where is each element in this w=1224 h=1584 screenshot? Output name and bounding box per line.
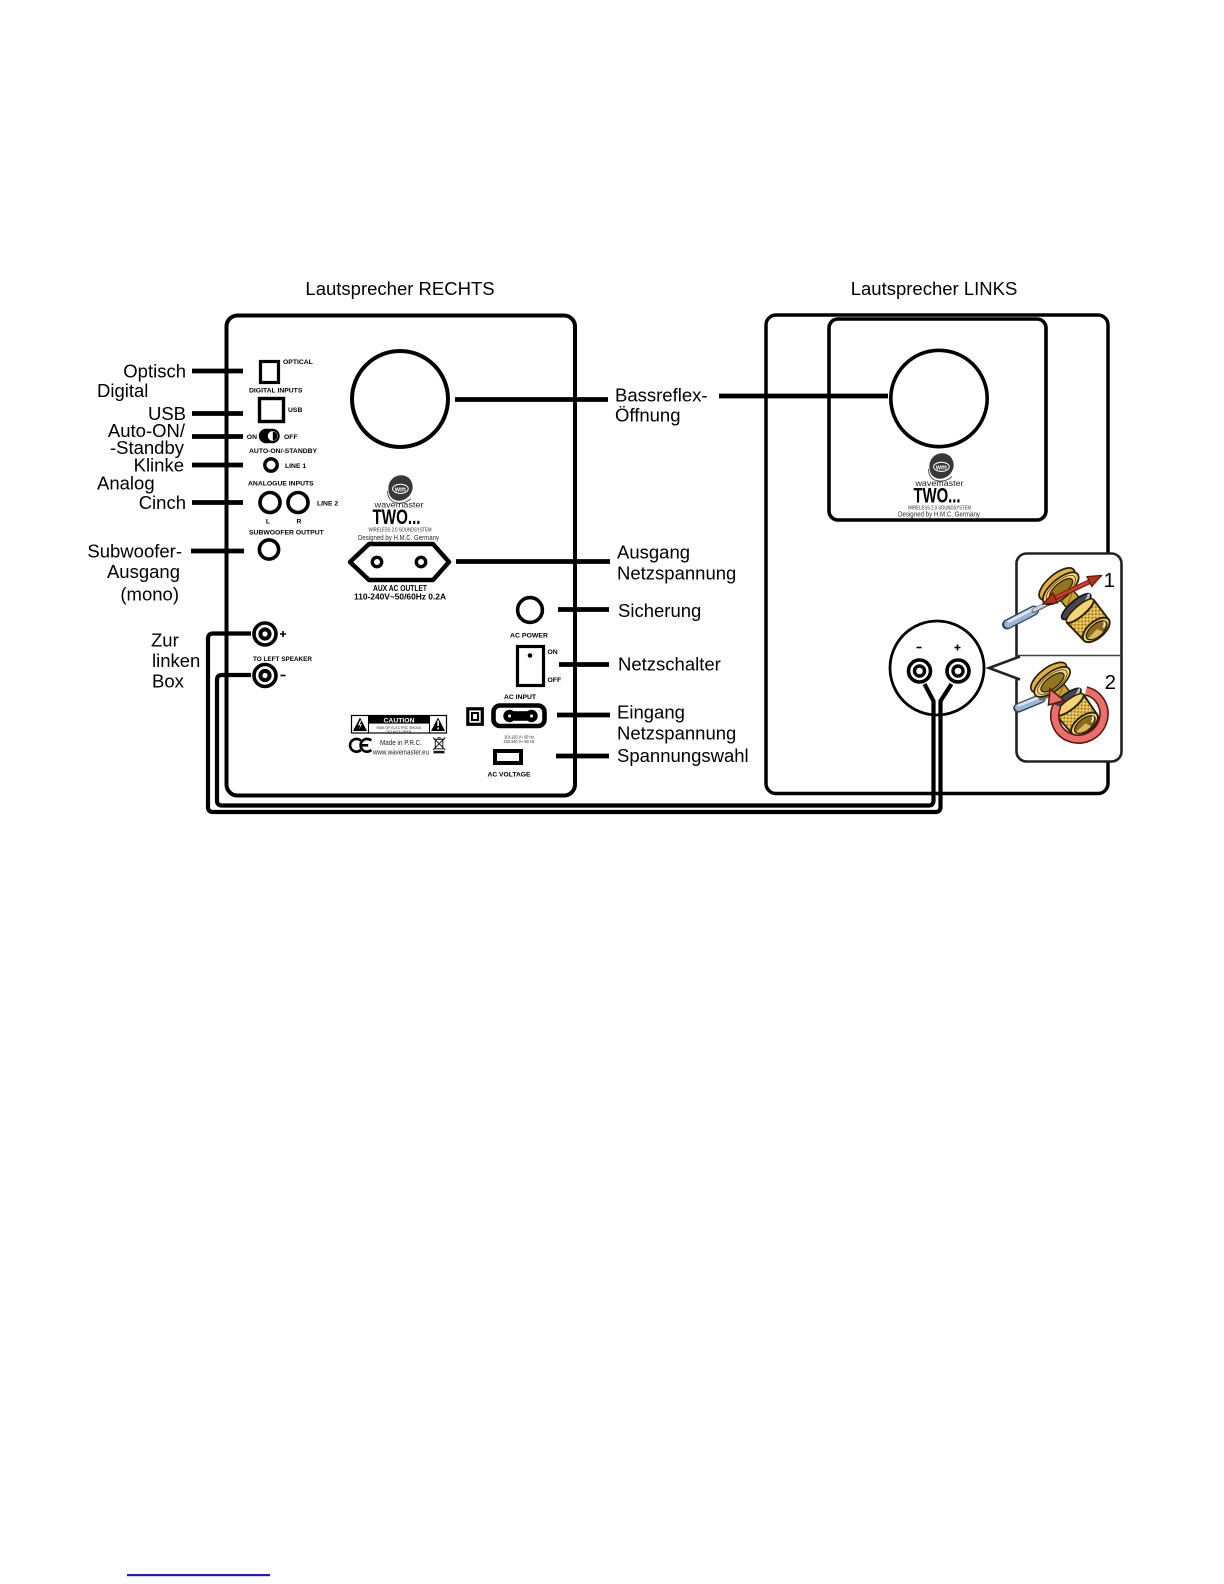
plug body 1 — [1034, 562, 1118, 650]
svg-text:Cinch: Cinch — [139, 492, 186, 513]
svg-text:ON: ON — [247, 434, 257, 441]
bassreflex opening right speaker — [352, 351, 448, 447]
svg-text:110-240V~50/60Hz 0.2A: 110-240V~50/60Hz 0.2A — [354, 593, 446, 602]
terminal recess circle left speaker — [890, 621, 984, 715]
svg-text:OFF: OFF — [284, 434, 298, 441]
svg-text:wm: wm — [935, 462, 947, 471]
svg-text:Ausgang: Ausgang — [617, 542, 690, 563]
svg-text:Sicherung: Sicherung — [618, 600, 701, 621]
subwoofer output jack — [259, 540, 278, 559]
svg-text:AUTO-ON/-STANDBY: AUTO-ON/-STANDBY — [249, 448, 318, 455]
info box with banana plug instructions — [989, 554, 1122, 762]
line1 jack — [265, 459, 277, 471]
svg-text:R: R — [297, 519, 302, 526]
svg-text:1: 1 — [1104, 569, 1115, 592]
wire - (right speaker minus post to left speaker minus post) — [217, 675, 934, 806]
svg-text:Ausgang: Ausgang — [107, 561, 180, 582]
svg-text:ANALOGUE INPUTS: ANALOGUE INPUTS — [248, 481, 314, 488]
lead line Netzschalter — [559, 662, 609, 667]
class II insulation symbol — [468, 709, 483, 725]
svg-text:OFF: OFF — [548, 677, 562, 684]
red arrow plug1 — [1043, 576, 1102, 605]
svg-text:DO NOT OPEN: DO NOT OPEN — [387, 730, 412, 734]
svg-text:Designed by H.M.C. Germany: Designed by H.M.C. Germany — [898, 512, 980, 519]
svg-text:Lautsprecher LINKS: Lautsprecher LINKS — [851, 278, 1018, 299]
CE mark — [350, 739, 371, 752]
lead line Subwoofer — [191, 549, 244, 554]
svg-text:DIGITAL INPUTS: DIGITAL INPUTS — [249, 388, 303, 395]
svg-text:Made in P.R.C.: Made in P.R.C. — [380, 738, 422, 747]
svg-text:Netzspannung: Netzspannung — [617, 563, 736, 584]
svg-text:USB: USB — [288, 407, 302, 414]
banana plug illustration 1 — [1007, 562, 1118, 650]
svg-text:TO LEFT SPEAKER: TO LEFT SPEAKER — [253, 656, 312, 663]
svg-text:AC INPUT: AC INPUT — [504, 694, 537, 701]
terminal post plus left speaker — [947, 660, 969, 682]
ac voltage selector — [495, 751, 521, 763]
wire blue plug2 — [1018, 693, 1055, 709]
svg-text:Spannungswahl: Spannungswahl — [617, 745, 749, 766]
ac power fuse holder — [518, 598, 543, 623]
switch dot — [528, 653, 533, 658]
wavemaster logo right speaker panel — [388, 475, 413, 503]
svg-text:TWO...: TWO... — [914, 485, 961, 508]
ac input inlet C8 — [494, 706, 545, 727]
lead line Optisch — [192, 369, 243, 374]
svg-text:Analog: Analog — [97, 473, 155, 494]
caution label — [352, 716, 447, 734]
minus sign left speaker — [917, 647, 922, 649]
wire blue plug1 — [1007, 599, 1056, 624]
svg-text:Digital: Digital — [97, 380, 148, 401]
svg-text:SUBWOOFER OUTPUT: SUBWOOFER OUTPUT — [249, 530, 325, 537]
svg-text:AC POWER: AC POWER — [510, 633, 548, 640]
svg-text:ON: ON — [548, 649, 558, 656]
right speaker rear panel (RECHTS) — [227, 316, 576, 796]
plus sign left speaker — [955, 645, 961, 651]
svg-text:LINE 1: LINE 1 — [285, 463, 306, 470]
lead line Auto-ON/-Standby — [192, 434, 243, 439]
svg-text:CAUTION: CAUTION — [384, 717, 415, 724]
lead line Cinch — [192, 500, 243, 505]
svg-text:linken: linken — [152, 650, 200, 671]
svg-text:Lautsprecher RECHTS: Lautsprecher RECHTS — [305, 278, 494, 299]
binding post plus (right speaker) — [254, 623, 276, 645]
line2 jack L — [260, 493, 280, 513]
svg-text:www.wavemaster.eu: www.wavemaster.eu — [372, 748, 429, 757]
svg-text:AC VOLTAGE: AC VOLTAGE — [488, 772, 531, 779]
left speaker inner baffle plate — [829, 319, 1046, 520]
optical input square — [261, 362, 279, 383]
outlet hole right — [416, 557, 425, 566]
svg-text:2: 2 — [1105, 671, 1116, 694]
svg-text:Subwoofer-: Subwoofer- — [87, 541, 182, 562]
svg-text:wm: wm — [394, 484, 406, 493]
wavemaster logo left speaker — [929, 453, 954, 481]
aux ac outlet europlug — [350, 544, 449, 580]
lead line Sicherung — [558, 607, 609, 612]
plus sign — [280, 631, 286, 637]
lead line Spannungswahl — [556, 754, 609, 759]
plug body 2 — [1026, 657, 1106, 743]
svg-text:Öffnung: Öffnung — [615, 405, 681, 426]
svg-text:LINE 2: LINE 2 — [317, 501, 338, 508]
lead line Ausgang Netzspannung — [456, 559, 610, 564]
svg-text:Designed by H.M.C. Germany: Designed by H.M.C. Germany — [358, 535, 439, 542]
outlet hole left — [372, 557, 381, 566]
lead line Klinke — [192, 463, 243, 468]
wire + (right speaker plus post to left speaker plus post) — [208, 634, 952, 813]
svg-text:Box: Box — [152, 671, 185, 692]
lead line Eingang Netzspannung — [557, 713, 610, 718]
svg-text:L: L — [266, 519, 270, 526]
lead line bassreflex left segment — [455, 397, 608, 402]
binding post minus (right speaker) — [254, 665, 276, 687]
svg-text:Eingang: Eingang — [617, 702, 685, 723]
minus sign — [281, 675, 286, 677]
svg-text:WIRELESS 2.0 SOUNDSYSTEM: WIRELESS 2.0 SOUNDSYSTEM — [369, 528, 432, 534]
line2 jack R — [288, 493, 308, 513]
lead line USB — [192, 411, 243, 416]
banana plug illustration 2 — [1018, 657, 1106, 743]
terminal post minus left speaker — [909, 660, 931, 682]
bassreflex opening left speaker — [891, 350, 987, 446]
svg-text:Optisch: Optisch — [123, 361, 186, 382]
lead line bassreflex right segment — [719, 394, 888, 399]
svg-text:220-240 V~ 50 Hz: 220-240 V~ 50 Hz — [504, 739, 535, 744]
left speaker front panel (LINKS) — [766, 315, 1108, 794]
footer blue rule — [127, 1574, 270, 1576]
svg-text:Bassreflex-: Bassreflex- — [615, 385, 708, 406]
svg-text:Netzschalter: Netzschalter — [618, 654, 721, 675]
svg-text:TWO...: TWO... — [373, 506, 421, 529]
svg-text:Zur: Zur — [151, 630, 179, 651]
svg-text:Netzspannung: Netzspannung — [617, 723, 736, 744]
svg-text:(mono): (mono) — [120, 584, 179, 605]
red rotation arrow plug2 — [1049, 689, 1105, 739]
WEEE crossed-out bin — [433, 738, 445, 751]
auto-on toggle switch — [259, 429, 280, 443]
usb input square — [260, 399, 284, 422]
svg-text:OPTICAL: OPTICAL — [283, 359, 313, 366]
power switch — [518, 647, 544, 686]
